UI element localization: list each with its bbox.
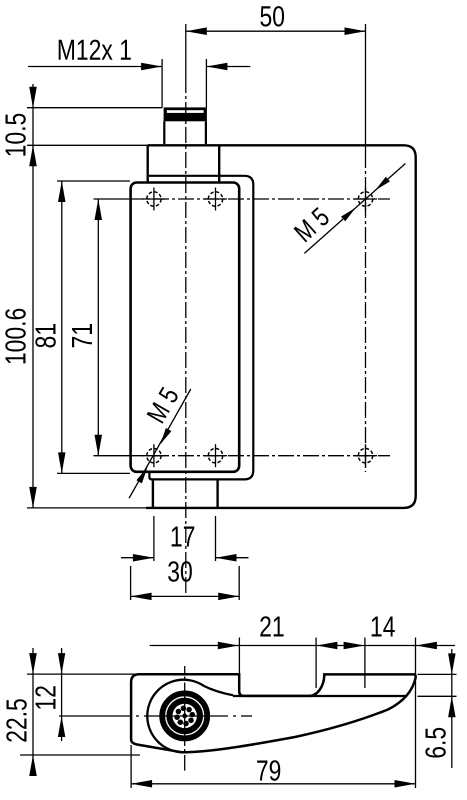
ext 71 bottom (94, 455, 129, 457)
arrow 17 right (216, 554, 237, 562)
bracket outline behind body (149, 176, 253, 480)
ext 50 right (365, 24, 367, 152)
connector centerline horizontal / ext 12 (59, 715, 131, 717)
arrow 22.5 top (29, 653, 37, 674)
M12 connector nut ring (162, 693, 207, 738)
mounting plate outline (no left edge) (146, 145, 416, 508)
arrow 12 bottom (58, 716, 65, 737)
arrow 21 left outside (218, 642, 239, 649)
ext 79 left (130, 745, 132, 788)
M12 thread cap (164, 107, 207, 121)
M5 hole at 365.5,455.7 (358, 449, 372, 463)
dim 17 left tail (121, 557, 154, 559)
M5 hole at 153.9,455.7 (147, 449, 161, 463)
ext 30 left (130, 566, 132, 600)
M12 pins (174, 706, 195, 727)
label 12 (35, 686, 55, 709)
arrow 50 right (345, 27, 366, 35)
ext 6.5 top (418, 673, 457, 675)
lower knuckle left side (152, 479, 154, 508)
arrow 21 right outside (316, 642, 337, 649)
arrow 12 top (58, 653, 65, 674)
arrow 6.5 top (448, 653, 456, 674)
arrow M12 right (206, 63, 227, 70)
dim line 81 (61, 181, 63, 473)
ext y145.3 plate top (27, 144, 148, 146)
label 6.5 (425, 728, 446, 758)
ext M12 right (205, 59, 207, 108)
arrow 79 left (131, 780, 152, 788)
arrow 81 top (58, 181, 66, 202)
side profile silhouette (131, 674, 416, 752)
M5 hole at 153.9,199 (147, 192, 161, 206)
arrow M12 left (141, 63, 162, 70)
arrow M5 TR upper (375, 177, 390, 191)
label 10.5 (5, 114, 26, 156)
arrow 71 top (95, 199, 103, 220)
arrow 50 left (186, 27, 207, 35)
arrow 14 right outside (416, 642, 437, 649)
M12 pin face (173, 704, 196, 727)
connector block right side (218, 145, 220, 183)
label M12x 1 (59, 40, 131, 60)
dim line 10.5/100.6 (32, 84, 34, 508)
hinge boss arc (147, 680, 204, 753)
lower knuckle right side (216, 479, 218, 508)
dim line M12x1 left tail (28, 66, 162, 68)
centerline hole row top (128, 198, 390, 200)
ext y507.9 plate bottom (27, 507, 146, 509)
chain ext x239.4 (238, 638, 240, 675)
connector centerline vertical (184, 666, 186, 673)
centerline hole row bottom (128, 455, 390, 457)
arrow 10.5 top (29, 87, 37, 108)
arrow 79 right (395, 780, 416, 788)
ext 30 right (238, 566, 240, 600)
arrow 17 left (133, 554, 154, 562)
dim line 12 (61, 648, 63, 741)
chain dim line 21/14 (150, 645, 455, 647)
label 21 (260, 616, 283, 636)
arrow 6.5 bottom (448, 696, 456, 717)
dim line 22.5 (32, 648, 34, 772)
dim line M12x1 right tail (206, 66, 250, 68)
chain ext x316.1 (315, 638, 317, 689)
dim line 79 (131, 783, 415, 785)
arrow 30 left (131, 593, 152, 601)
ext M12 left (161, 59, 163, 108)
label 17 (172, 527, 195, 547)
ext y107.7 cap top (27, 107, 162, 109)
label 30 (168, 561, 192, 582)
dim line 30 (131, 595, 240, 597)
label 81 (35, 324, 56, 347)
ext 81 bottom (57, 472, 130, 474)
M12 connector inner ring (169, 701, 200, 732)
leader M5 bottom left (129, 389, 191, 498)
dim 17 right tail (216, 557, 249, 559)
ext 71 top (94, 198, 129, 200)
label 14 (372, 617, 395, 637)
leader M5 top right (304, 164, 405, 254)
ext 50 left (185, 24, 187, 77)
ext 17 right (215, 516, 217, 561)
lever top hidden edge (233, 695, 407, 697)
label M5 top right (293, 206, 330, 242)
arrow 22.5 bottom (29, 755, 37, 776)
M5 hole at 215.5,199 (208, 192, 222, 206)
centerline body vertical (185, 77, 187, 593)
centerline right hole column (365, 152, 367, 472)
ext y755 bottom (20, 754, 140, 756)
connector block left side (146, 145, 148, 183)
arrow 100.6 bottom (29, 487, 37, 508)
arrow 14 left outside (344, 642, 365, 649)
chain/79 ext x415.5 (415, 638, 417, 789)
boss-to-top S curve (204, 686, 233, 695)
label 79 (257, 760, 280, 781)
arrow 10.5 bottom / 100.6 top (29, 145, 37, 166)
arrow M5 TR lower (341, 208, 356, 222)
M5 hole at 365.5,199 (358, 192, 372, 206)
M5 hole at 215.5,455.7 (208, 449, 222, 463)
label 22.5 (6, 699, 27, 741)
dim line 6.5 (451, 649, 453, 768)
arrow M5 BL lower (136, 467, 147, 483)
dim line 71 (97, 199, 99, 456)
label 50 (260, 6, 284, 27)
dim line 50 (186, 30, 366, 32)
ext 6.5 bottom (418, 695, 457, 697)
chain ext x364.9 (364, 638, 366, 689)
arrow M5 BL upper (160, 428, 171, 444)
ext 81 top (57, 180, 130, 182)
switch body rounded rect (131, 183, 240, 472)
ext y674.1 (27, 673, 135, 675)
label M5 bottom left (147, 386, 180, 424)
ext 17 left (153, 516, 155, 561)
arrow 81 bottom (58, 452, 66, 473)
label 71 (72, 324, 92, 347)
connector barrel right (205, 121, 207, 144)
connector barrel left (163, 121, 165, 144)
arrow 30 right (218, 593, 239, 601)
label 100.6 (5, 309, 26, 364)
arrow 71 bottom (95, 435, 103, 456)
